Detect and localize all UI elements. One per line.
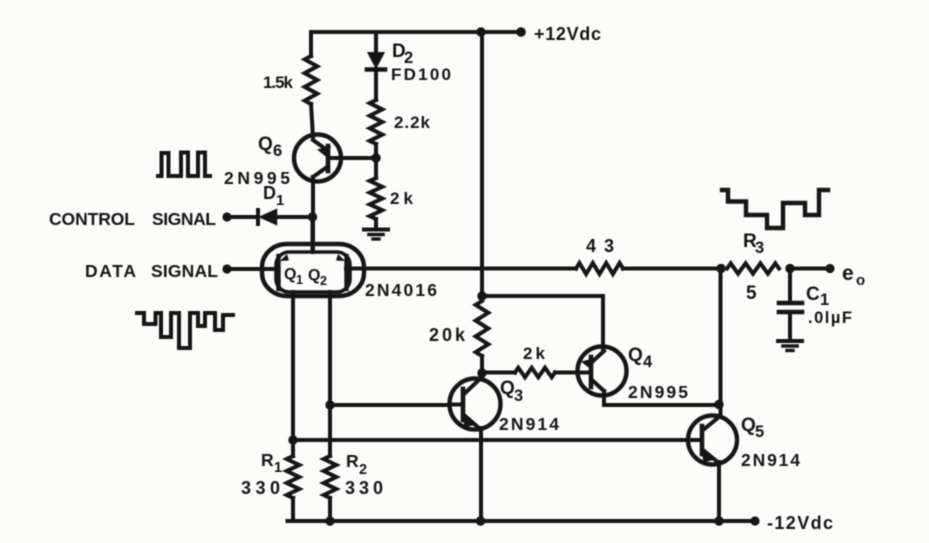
resistor R3 body	[727, 263, 779, 273]
svg-text:Q: Q	[308, 267, 320, 284]
wire Q5 base line from R1 node	[293, 438, 688, 442]
transistor Q4 emitter lead with arrow	[592, 351, 604, 362]
svg-text:2: 2	[320, 274, 327, 288]
wire R1 to bottom rail	[291, 498, 295, 521]
wire Q3 base line from R2 node	[330, 403, 450, 407]
wire Q4 collector to Q5 node	[604, 391, 719, 405]
wire 20k to Q3 node	[480, 356, 484, 374]
wire Q6 emitter down to D1 node	[311, 177, 315, 248]
svg-text:330: 330	[241, 478, 280, 498]
svg-text:Q: Q	[258, 134, 273, 155]
svg-text:1.5k: 1.5k	[263, 73, 294, 92]
transistor Q6 base bar	[326, 146, 331, 171]
wire 2k to ground	[374, 219, 378, 228]
svg-text:o: o	[856, 272, 865, 289]
svg-text:DATA: DATA	[85, 261, 136, 281]
wire junction to Q4 emitter	[482, 296, 603, 350]
capacitor C1 top plate	[779, 301, 802, 306]
diode D2 triangle	[369, 53, 384, 67]
svg-text:Q: Q	[628, 345, 643, 366]
svg-text:2k: 2k	[523, 344, 546, 363]
transistor Q4 body circle	[578, 347, 627, 396]
resistor 20k body	[476, 301, 489, 356]
ground symbol (2k branch)	[364, 228, 388, 232]
svg-text:FD100: FD100	[391, 65, 451, 84]
capacitor C1 bottom plate	[779, 310, 802, 315]
node main vertical / bottom rail	[476, 516, 485, 525]
transistor Q6 base lead	[328, 156, 376, 160]
transistor Q3 base bar	[461, 389, 466, 420]
data signal terminal	[222, 264, 231, 273]
wire +12V top rail	[311, 30, 521, 34]
svg-text:R: R	[261, 450, 274, 470]
svg-text:2N914: 2N914	[499, 414, 559, 434]
resistor 43 body	[576, 263, 623, 274]
svg-text:C: C	[806, 284, 820, 305]
node top-rail / main-vertical junction	[476, 27, 485, 36]
svg-text:e: e	[842, 262, 854, 285]
node D1 / Q6 emitter / Q1Q2 top junction	[308, 212, 317, 221]
node 20k / Q3 collector / 2k junction	[477, 368, 486, 377]
transistor Q5 body circle	[688, 416, 737, 465]
transistor Q3 body circle	[450, 379, 501, 430]
wire Q1Q2 top lead	[311, 217, 315, 252]
svg-text:2N914: 2N914	[741, 450, 800, 470]
node R3 right / C1 junction	[785, 264, 794, 273]
svg-text:1: 1	[276, 192, 284, 209]
wire 2k to Q4 base	[555, 371, 590, 375]
wire Q2 lead down to R2	[328, 292, 332, 456]
+12Vdc supply terminal	[516, 27, 526, 37]
resistor R1 body	[287, 456, 300, 498]
wire Q5 emitter to bottom rail	[717, 462, 721, 521]
wire control terminal to D1	[227, 215, 257, 219]
transistor Q6 body circle	[294, 135, 341, 182]
svg-text:1: 1	[274, 460, 282, 476]
svg-text:D: D	[263, 183, 276, 203]
resistor 2.2k body	[370, 100, 383, 144]
svg-text:1: 1	[296, 273, 303, 287]
svg-text:6: 6	[273, 142, 282, 160]
svg-text:3: 3	[755, 239, 764, 257]
wire data terminal to Q1Q2	[227, 267, 278, 271]
wire 1.5k top lead	[309, 32, 313, 56]
svg-text:Q: Q	[741, 415, 756, 436]
dual transistor Q2 tick	[336, 254, 345, 261]
svg-text:+12Vdc: +12Vdc	[534, 24, 601, 44]
svg-text:2N995: 2N995	[224, 168, 290, 188]
wire R3 node down to Q5 collector	[719, 269, 723, 418]
transistor Q5 emitter lead with arrow	[703, 450, 719, 463]
dual transistor Q2 base bar	[344, 256, 348, 289]
transistor Q3 emitter lead with arrow	[464, 415, 480, 429]
svg-text:Q: Q	[500, 378, 515, 399]
control waveform icon	[158, 153, 210, 177]
transistor Q4 collector lead	[592, 380, 604, 391]
transistor Q5 base lead	[688, 438, 702, 442]
wire 2.2k to Q6-base node	[374, 144, 378, 178]
wire 43 to R3 node	[623, 267, 721, 271]
diode D2 cathode bar	[367, 67, 385, 72]
svg-text:20k: 20k	[429, 325, 466, 345]
svg-text:2: 2	[359, 462, 367, 478]
svg-text:Q: Q	[284, 266, 296, 283]
svg-text:SIGNAL: SIGNAL	[151, 261, 218, 281]
dual transistor Q1 tick	[280, 254, 289, 261]
-12Vdc supply terminal	[750, 516, 759, 525]
svg-text:330: 330	[345, 478, 383, 498]
capacitor C1 bottom lead	[788, 314, 792, 340]
control signal terminal	[222, 212, 231, 221]
svg-text:SIGNAL: SIGNAL	[152, 209, 216, 229]
node R2 / bottom rail	[325, 516, 334, 525]
diode D1 triangle	[260, 210, 277, 225]
wire -12V bottom rail	[288, 519, 756, 523]
transistor Q5 base bar	[700, 426, 705, 454]
capacitor C1 top lead	[788, 269, 792, 302]
dual transistor Q1 Q2 inner outline	[276, 252, 350, 292]
resistor R2 body	[324, 456, 337, 498]
diode D2 anode lead	[374, 32, 378, 53]
output staircase waveform icon	[722, 190, 828, 228]
resistor 1.5k body	[305, 56, 318, 104]
svg-text:.0lµF: .0lµF	[808, 309, 852, 327]
svg-text:2.2k: 2.2k	[394, 113, 431, 132]
svg-text:2N995: 2N995	[628, 382, 688, 402]
node 20k top junction	[477, 291, 486, 300]
dual transistor Q1 base bar	[276, 256, 280, 289]
svg-text:1: 1	[820, 291, 829, 309]
resistor 2k bias body	[370, 178, 383, 219]
dual transistor Q1 Q2 outer case	[262, 244, 364, 296]
node Q6 base junction	[371, 153, 380, 162]
wire 1.5k bottom lead to Q6 collector	[311, 104, 313, 137]
svg-text:5: 5	[755, 423, 764, 441]
svg-text:4: 4	[643, 353, 653, 371]
svg-text:3: 3	[514, 387, 523, 405]
transistor Q6 emitter lead	[313, 167, 327, 177]
svg-text:2k: 2k	[390, 189, 414, 208]
node R1 / Q5 base junction	[288, 435, 297, 444]
wire Q1 lead down to R1	[291, 292, 295, 456]
svg-text:5: 5	[746, 283, 757, 304]
transistor Q6 collector lead with arrow	[313, 140, 327, 150]
svg-text:CONTROL: CONTROL	[49, 209, 135, 229]
ground symbol (C1)	[778, 339, 802, 343]
wire Q1Q2 output to 43	[346, 267, 576, 271]
node R3 left junction	[716, 264, 725, 273]
node R2 / Q3 base junction	[325, 400, 334, 409]
resistor 2k (Q4 base) body	[515, 368, 555, 378]
wire node to 2k	[482, 371, 515, 375]
wire to output terminal	[790, 267, 830, 271]
transistor Q5 collector lead	[703, 417, 719, 430]
wire R2 to bottom rail	[328, 498, 332, 521]
svg-text:R: R	[346, 451, 359, 471]
transistor Q3 collector lead	[464, 377, 482, 394]
wire main vertical rail down from +12V	[480, 32, 484, 296]
node Q5 emitter / bottom rail	[714, 516, 723, 525]
data waveform icon	[137, 313, 233, 348]
svg-text:-12Vdc: -12Vdc	[767, 513, 833, 533]
wire Q3 emitter to bottom rail	[479, 428, 483, 521]
wire D2 to 2.2k	[374, 69, 378, 100]
svg-text:43: 43	[586, 236, 614, 256]
diode D1 cathode bar	[256, 210, 260, 224]
transistor Q4 base bar	[589, 357, 594, 387]
node Q4 / Q5 collector junction	[714, 400, 723, 409]
svg-text:2N4016: 2N4016	[365, 280, 437, 300]
transistor Q3 base lead	[450, 403, 464, 407]
output terminal e_o	[825, 264, 834, 273]
wire D1 to junction	[276, 215, 313, 219]
